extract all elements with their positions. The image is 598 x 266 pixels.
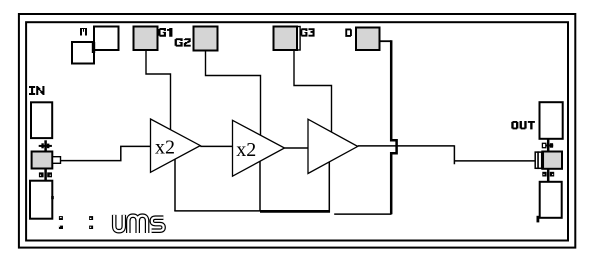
pad G3 (274, 27, 298, 51)
wire source bus thick (260, 210, 330, 213)
svg-text:x2: x2 (155, 137, 175, 159)
ground pad OUT bottom (540, 182, 562, 218)
capacitor IN (53, 157, 61, 164)
via IN bottom tick (51, 196, 54, 199)
wire D bias (380, 40, 392, 42)
label OUT (511, 121, 535, 129)
capacitor OUT (535, 152, 541, 168)
label G3 (300, 28, 314, 36)
via IN top (39, 140, 52, 152)
via OUT top (542, 139, 553, 152)
wire drain return (334, 213, 391, 215)
amplifier A1 (x2 doubler) (151, 119, 201, 172)
amplifier A2 (x2 doubler) (233, 120, 285, 176)
wire source bus thin (174, 210, 260, 212)
capacitor G3 (297, 27, 300, 51)
wire A2-A3 (285, 147, 309, 149)
wire G1 bias (146, 51, 171, 131)
wire input (61, 146, 151, 160)
pad IN (signal) (32, 152, 53, 169)
wire A3 source (328, 162, 330, 213)
via OUT bottom tick (537, 216, 540, 223)
wire output (358, 145, 536, 164)
wire A2 source (259, 161, 261, 211)
label G2 (175, 38, 191, 46)
pad D (356, 28, 380, 51)
via IN bottom (39, 169, 52, 182)
wire G2 bias (206, 51, 261, 136)
via M overlap (92, 42, 95, 53)
pad G2 (194, 27, 218, 51)
ground pad IN top (31, 102, 52, 138)
svg-text:x2: x2 (236, 139, 256, 161)
wire A1-A2 (200, 145, 232, 147)
ground pad OUT top (540, 102, 563, 139)
registration mark 1 (59, 216, 63, 229)
pad M2 (72, 42, 94, 64)
via OUT bottom (542, 169, 554, 182)
label D (345, 29, 352, 37)
label IN (29, 86, 44, 95)
amplifier A3 (308, 119, 358, 173)
label M (80, 28, 87, 36)
pad OUT (signal) (542, 152, 562, 169)
registration mark 2 (89, 216, 93, 229)
label G1 (158, 28, 172, 37)
ground pad IN bottom (30, 181, 52, 219)
pad M1 (94, 27, 119, 51)
wire G3 bias (294, 51, 332, 133)
logo UMS (114, 215, 163, 233)
wire A1 source (174, 159, 176, 211)
pad G1 (134, 27, 158, 51)
